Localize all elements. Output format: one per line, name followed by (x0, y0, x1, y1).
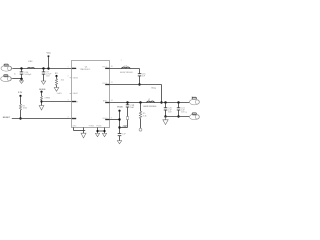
ground C9 (41, 81, 45, 84)
capacitor C20 (164, 101, 173, 116)
wire PVCC mid (110, 84, 162, 86)
resistor R5 (139, 101, 146, 128)
wire U1 gnd stubs right (98, 128, 105, 134)
svg-text:14: 14 (111, 100, 113, 102)
svg-text:L1: L1 (125, 65, 127, 67)
ground out (163, 117, 168, 125)
net flag MODE (39, 89, 46, 96)
svg-text:RESET: RESET (3, 117, 11, 119)
node B (20, 78, 23, 81)
svg-text:1: 1 (133, 104, 134, 106)
svg-text:3.3k: 3.3k (143, 115, 147, 117)
power flag VCC (47, 52, 52, 68)
ground R3 (54, 88, 59, 92)
ground G (95, 133, 99, 136)
svg-text:4: 4 (68, 116, 69, 118)
wire input rail (13, 68, 72, 70)
svg-text:GAIN: GAIN (57, 92, 62, 95)
svg-text:1000pF: 1000pF (24, 74, 32, 76)
node J (138, 83, 140, 85)
svg-text:2: 2 (68, 76, 69, 78)
connector J2 (1, 75, 13, 82)
svg-text:3.3V: 3.3V (18, 92, 23, 94)
ground R4 (39, 106, 44, 111)
svg-text:L2: L2 (148, 99, 150, 101)
node E (40, 100, 42, 102)
svg-text:21: 21 (111, 82, 113, 84)
node G (96, 130, 98, 132)
pin labels inside (72, 67, 108, 128)
node P (139, 128, 142, 131)
wire U1 pin to GVDD (110, 119, 120, 121)
ground C14 (117, 141, 121, 144)
svg-text:600R/ FB1600: 600R/ FB1600 (120, 72, 134, 74)
connector J4 (185, 112, 199, 120)
svg-text:1: 1 (68, 66, 69, 68)
svg-text:PGND: PGND (89, 126, 95, 128)
op-amp U1 (68, 61, 113, 128)
pin ticks (72, 68, 110, 119)
capacitor C21 (177, 101, 186, 116)
svg-text:GAIN0: GAIN0 (73, 77, 78, 80)
wire corner right (161, 85, 163, 103)
pin numbers outside (68, 66, 113, 119)
node L (160, 101, 162, 103)
node F (19, 117, 21, 119)
net flag 3.3V (18, 92, 23, 104)
connector J3 (190, 97, 200, 105)
capacitor C16 (138, 69, 146, 85)
ground input (20, 79, 24, 84)
svg-text:VCC: VCC (47, 52, 52, 54)
svg-text:3: 3 (68, 100, 69, 102)
capacitor C9 (42, 69, 52, 82)
resistor R4 (41, 96, 51, 105)
wire mode to U1 (42, 101, 72, 103)
node R (177, 115, 179, 117)
ferrite bead FB3 (27, 67, 35, 68)
svg-text:A1: A1 (14, 73, 16, 76)
svg-text:GVDD: GVDD (117, 106, 124, 108)
svg-text:100k: 100k (23, 108, 27, 110)
svg-text:600R/ FB1600: 600R/ FB1600 (143, 106, 157, 108)
connector J1 (1, 64, 13, 71)
svg-text:TPA3110D2: TPA3110D2 (80, 68, 91, 71)
svg-text:GAIN1: GAIN1 (73, 92, 78, 95)
resistor R3 pulldown flag (55, 73, 64, 88)
ferrite bead FB2 (143, 99, 157, 108)
wire snubber join (120, 127, 128, 129)
wire reset (12, 118, 72, 120)
svg-text:OPEN: OPEN (44, 97, 50, 99)
svg-text:9: 9 (111, 117, 112, 119)
wire J2 to ground node (12, 78, 21, 80)
node N (118, 118, 120, 120)
svg-text:1: 1 (121, 60, 122, 62)
net flag GVDD (117, 106, 124, 133)
capacitor C14 (118, 126, 127, 141)
wire U1 bottom stubs (74, 128, 86, 134)
node A (20, 67, 22, 69)
node O (118, 126, 120, 128)
node H (103, 130, 105, 132)
node C (42, 67, 44, 69)
capacitor C13 (126, 101, 135, 116)
wire OUT rail (110, 102, 190, 104)
svg-text:28: 28 (111, 66, 113, 68)
capacitor C10 (20, 69, 32, 79)
ground U1 thermal (81, 133, 86, 138)
resistor R6 (123, 117, 128, 128)
svg-text:10k: 10k (61, 79, 64, 81)
ferrite bead FB1 (120, 60, 134, 74)
svg-text:PGND: PGND (96, 126, 102, 128)
svg-text:J4: J4 (185, 112, 187, 114)
node D (47, 67, 49, 69)
node Q (164, 115, 166, 117)
ground H (102, 133, 106, 136)
resistor R1 (19, 104, 27, 118)
svg-text:GND: GND (72, 126, 77, 128)
svg-text:MODE: MODE (39, 89, 46, 91)
wire out bottom rail (166, 116, 190, 118)
wire OUTL (110, 68, 140, 70)
